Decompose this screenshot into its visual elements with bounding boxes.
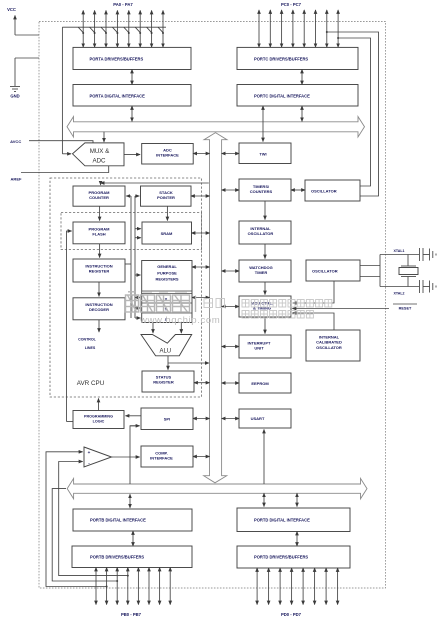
chip boundary (dash-dot border) [39, 22, 386, 589]
wire bus to program counter [101, 182, 209, 184]
svg-text:PORTA DRIVERS/BUFFERS: PORTA DRIVERS/BUFFERS [90, 57, 144, 62]
wire comparator + input from PB1 [46, 452, 107, 587]
wire mcu ctrl to interrupt unit [264, 317, 266, 334]
wire programming logic to cpu [98, 399, 100, 411]
wire oscillator to xtal fork [360, 265, 380, 267]
svg-text:USART: USART [251, 416, 265, 421]
svg-text:PORTA DIGITAL INTERFACE: PORTA DIGITAL INTERFACE [90, 94, 146, 99]
watermark hqchip [126, 292, 139, 312]
wire PORTC interface-bus [301, 106, 303, 121]
box OSCILLATOR (xtal) [306, 260, 360, 281]
box STATUS REGISTER [142, 371, 194, 392]
box PROGRAMMING LOGIC [73, 411, 124, 429]
box ADC INTERFACE [142, 144, 194, 165]
box SPI [141, 408, 193, 430]
box INTERRUPT UNIT [239, 335, 291, 358]
wire calibrated osc to mcu ctrl [293, 313, 334, 330]
wire cpu internal bus 1 [130, 196, 132, 318]
wire gpr X-bus [192, 297, 210, 299]
svg-text:INTERNALOSCILLATOR: INTERNALOSCILLATOR [248, 226, 274, 236]
pull-up rail port A [62, 26, 166, 28]
svg-text:www.hqchip.com: www.hqchip.com [139, 315, 220, 326]
wire timers-bus [222, 189, 239, 191]
box SRAM [142, 222, 192, 244]
wire internal osc to watchdog [264, 244, 266, 259]
svg-text:PORTC DRIVERS/BUFFERS: PORTC DRIVERS/BUFFERS [254, 57, 308, 62]
svg-text:AVCC: AVCC [10, 139, 21, 144]
svg-text:PORTC DIGITAL INTERFACE: PORTC DIGITAL INTERFACE [254, 94, 310, 99]
wire gpr to alu left [152, 323, 154, 334]
box PORTB DRIVERS/BUFFERS [72, 546, 192, 568]
dashed box flash/sram region [61, 213, 202, 250]
wire MUX to ADC [124, 154, 140, 156]
svg-text:PD0 - PD7: PD0 - PD7 [281, 612, 302, 617]
box COMP. INTERFACE [141, 446, 193, 467]
wire program counter to flash [99, 206, 101, 220]
wire comp interface-bus [193, 456, 210, 458]
wire stack pointer to sram [166, 206, 168, 220]
svg-text:STATUSREGISTER: STATUSREGISTER [153, 375, 174, 385]
wire alu-bus [168, 362, 209, 364]
TOSC1 line from PC6 [327, 32, 379, 196]
wire flash to instruction register [99, 244, 101, 258]
ground (xtal1) [429, 249, 431, 261]
wire spi to portb interface [130, 426, 140, 484]
wire oscillator to mcu ctrl [293, 281, 334, 303]
box GENERAL PURPOSE REGISTERS [142, 261, 192, 323]
box PROGRAM FLASH [73, 222, 125, 244]
box PORTC DRIVERS/BUFFERS [237, 47, 358, 69]
svg-text:PORTD DRIVERS/BUFFERS: PORTD DRIVERS/BUFFERS [254, 555, 308, 560]
control lines arrow [98, 320, 100, 332]
wire timers-oscillator [291, 189, 305, 191]
svg-text:OSCILLATOR: OSCILLATOR [311, 189, 337, 194]
box WATCHDOG TIMER [239, 260, 291, 282]
wire usart-bus [222, 418, 239, 420]
svg-text:PC0 - PC7: PC0 - PC7 [281, 2, 302, 7]
box PORTC DIGITAL INTERFACE [237, 85, 358, 107]
box OSCILLATOR (timer) [305, 180, 360, 201]
wire timers to internal oscillator [264, 201, 266, 220]
svg-text:ALU: ALU [159, 348, 171, 354]
wire PORTB interface-drivers [132, 531, 134, 546]
pin RESET [393, 303, 417, 305]
box PORTB DIGITAL INTERFACE [73, 509, 192, 531]
capacitor C2 [419, 280, 421, 293]
svg-text:SPI: SPI [164, 417, 170, 422]
svg-text:XTAL1: XTAL1 [393, 249, 404, 253]
box EEPROM [239, 373, 291, 393]
data bus (bottom horizontal) [67, 478, 367, 498]
svg-text:MUX &: MUX & [90, 148, 110, 155]
wire sram-bus [192, 232, 210, 234]
box PORTD DRIVERS/BUFFERS [237, 546, 350, 568]
box PROGRAM COUNTER [73, 186, 125, 206]
svg-text:LINES: LINES [85, 346, 96, 350]
wire PORTA drivers-interface [131, 70, 133, 85]
svg-text:INSTRUCTIONREGISTER: INSTRUCTIONREGISTER [85, 264, 112, 274]
wire watchdog to mcu ctrl [264, 282, 266, 295]
box TIMERS/COUNTERS [239, 179, 291, 201]
svg-text:RESET: RESET [399, 307, 412, 311]
wire usart to portd interface [263, 430, 265, 485]
dashed box AVR CPU region [50, 178, 202, 397]
TOSC2 line from PC7 [338, 38, 370, 186]
wire stack pointer-bus [191, 195, 210, 197]
box INTERNAL OSCILLATOR [239, 221, 291, 244]
wire gpr to alu right [180, 323, 182, 334]
svg-text:AVR CPU: AVR CPU [77, 380, 105, 387]
box PORTA DRIVERS/BUFFERS [73, 47, 191, 69]
svg-text:PB0 - PB7: PB0 - PB7 [121, 612, 142, 617]
box INSTRUCTION DECODER [73, 298, 125, 320]
svg-text:TWI: TWI [259, 152, 266, 157]
svg-text:+: + [88, 450, 91, 455]
wire status register-bus [194, 382, 210, 384]
box STACK POINTER [141, 186, 192, 206]
wire to Z [135, 317, 140, 319]
svg-text:PORTB DRIVERS/BUFFERS: PORTB DRIVERS/BUFFERS [90, 555, 144, 560]
svg-text:INSTRUCTIONDECODER: INSTRUCTIONDECODER [85, 302, 112, 312]
svg-text:VCC: VCC [7, 7, 16, 12]
box PORTA DIGITAL INTERFACE [73, 85, 191, 107]
wire comparator output [112, 456, 140, 458]
svg-text:EEPROM: EEPROM [251, 381, 269, 386]
wire to sram b [135, 237, 141, 239]
wire to Y [135, 307, 140, 309]
svg-text:OSCILLATOR: OSCILLATOR [312, 269, 338, 274]
wire programming logic to flash [67, 231, 72, 422]
box MCU CTRL. & TIMING [239, 296, 291, 317]
wire PORTD interface-drivers [296, 532, 298, 547]
data bus (vertical, center) [204, 133, 227, 483]
box INTERNAL CALIBRATED OSCILLATOR [306, 330, 360, 361]
wire spi to programming logic [126, 415, 142, 417]
svg-text:PROGRAMCOUNTER: PROGRAMCOUNTER [89, 190, 111, 200]
wire gpr-bus [192, 266, 210, 268]
wire ADC-bus [193, 153, 209, 155]
wire cpu internal bus 2 [134, 196, 136, 318]
svg-text:PORTD DIGITAL INTERFACE: PORTD DIGITAL INTERFACE [254, 518, 310, 523]
wire VCC rail to MUX [61, 27, 63, 154]
wire PORTC drivers-interface [301, 70, 303, 85]
crystal [407, 255, 409, 267]
wire comparator - input from PB3 [59, 462, 128, 576]
alu ALU [141, 335, 192, 356]
svg-text:GENERALPURPOSEREGISTERS: GENERALPURPOSEREGISTERS [155, 264, 178, 282]
ground GND [15, 57, 39, 59]
box USART [239, 409, 291, 428]
svg-text:STACKPOINTER: STACKPOINTER [157, 190, 175, 200]
wire watchdog-bus [222, 270, 239, 272]
wire bus to MUX top [103, 132, 105, 142]
data bus (top horizontal) [67, 117, 365, 137]
svg-text:PORTB DIGITAL INTERFACE: PORTB DIGITAL INTERFACE [90, 518, 146, 523]
watermark distributor line 1 [242, 300, 249, 308]
wire spi-bus [193, 418, 210, 420]
wire interrupt unit-bus [222, 346, 239, 348]
capacitor C1 [419, 248, 421, 261]
ground (xtal2) [429, 281, 431, 293]
svg-text:GND: GND [10, 94, 19, 99]
box TWI [239, 143, 291, 164]
wire PORTA interface-bus [131, 106, 133, 121]
wire TWI-bus [222, 153, 239, 155]
wire to sram a [135, 228, 141, 230]
svg-text:AREF: AREF [11, 177, 22, 182]
wire instruction register to decoder [98, 282, 100, 296]
wire to X [135, 297, 140, 299]
svg-text:XTAL2: XTAL2 [393, 292, 404, 296]
svg-text:INTERNALCALIBRATEDOSCILLATOR: INTERNALCALIBRATEDOSCILLATOR [316, 335, 342, 350]
mux MUX & ADC [73, 143, 125, 166]
box INSTRUCTION REGISTER [73, 259, 125, 282]
box PORTD DIGITAL INTERFACE [237, 508, 350, 532]
wire PORTC interface to TWI [262, 106, 264, 142]
watermark distributor line 2 [242, 311, 249, 319]
wire eeprom-bus [222, 382, 239, 384]
register file divider [142, 290, 192, 292]
svg-text:CONTROL: CONTROL [78, 338, 97, 342]
svg-text:SRAM: SRAM [161, 231, 173, 236]
wire PORTD bus-interface [296, 493, 298, 506]
comparator [84, 447, 112, 467]
wire instruction register tap [125, 263, 131, 265]
svg-text:PA0 - PA7: PA0 - PA7 [113, 2, 133, 7]
wire mcu ctrl-bus [222, 306, 239, 308]
wire to gpr [135, 274, 140, 276]
svg-text:ADC: ADC [92, 158, 106, 165]
wire alu to status register [167, 356, 169, 370]
wire bus tail to PB2 [52, 489, 117, 581]
